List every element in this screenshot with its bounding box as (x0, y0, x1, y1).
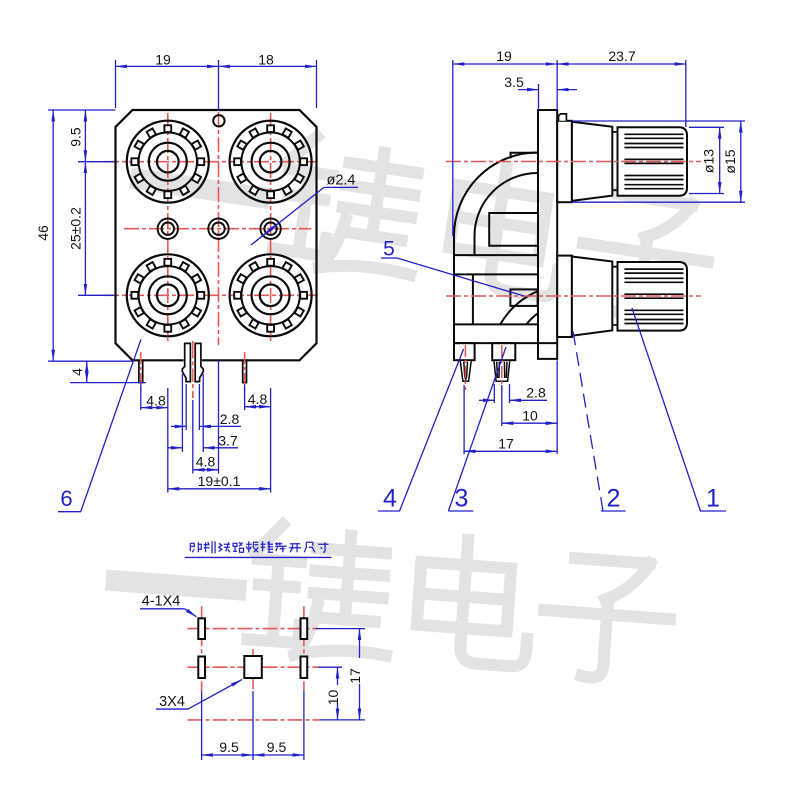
svg-text:19: 19 (496, 48, 512, 64)
dimension texts front view (35, 51, 274, 489)
watermark top: yi jian dian zi (132, 112, 718, 325)
rotor knob top-left (127, 121, 209, 203)
lower pot boss tab (510, 289, 537, 306)
dim phi13 (719, 127, 721, 193)
svg-text:4.8: 4.8 (248, 391, 268, 407)
svg-text:2.8: 2.8 (220, 411, 240, 427)
svg-text:5: 5 (383, 238, 395, 261)
dim 9.5 right (253, 754, 304, 756)
leader 5 (397, 258, 524, 296)
svg-text:18: 18 (258, 51, 274, 67)
dim 10 pcb (337, 667, 339, 685)
dim 3.7 (outside arrows) (167, 447, 182, 449)
housing outer arc upper pot (454, 153, 538, 344)
dim 9.5 left (202, 754, 253, 756)
PCB square hole 3x4 (244, 656, 261, 678)
watermark bottom: yi jian dian zi (112, 513, 675, 683)
lower pot inner arc (526, 313, 537, 324)
svg-text:4.8: 4.8 (146, 392, 166, 408)
svg-text:6: 6 (60, 486, 72, 511)
knob lower (side view) (557, 256, 687, 337)
dim 3.5 (outside arrows) (518, 89, 539, 91)
housing inner arc upper pot (475, 173, 538, 255)
svg-text:4-1X4: 4-1X4 (142, 594, 181, 610)
svg-text:10: 10 (325, 690, 341, 706)
svg-text:10: 10 (522, 408, 538, 424)
svg-text:17: 17 (498, 436, 514, 452)
bracket foot middle (492, 343, 515, 360)
svg-text:3X4: 3X4 (159, 694, 185, 710)
leader 3 (448, 347, 506, 511)
terminal window upper pot (489, 213, 538, 246)
dim 18 (top) (219, 65, 317, 67)
svg-text:17: 17 (347, 668, 363, 684)
svg-text:9.5: 9.5 (67, 127, 83, 147)
svg-text:ø15: ø15 (722, 149, 738, 173)
dim 4.8 bottom (193, 469, 219, 471)
svg-text:46: 46 (35, 225, 51, 241)
vertical rib lower pot (472, 274, 474, 324)
svg-text:ø13: ø13 (701, 149, 717, 173)
svg-text:3.7: 3.7 (218, 433, 238, 449)
svg-text:4: 4 (69, 368, 85, 376)
dim 4.8 left (141, 407, 168, 409)
side view fork terminal pin 2 (494, 360, 510, 381)
dimension lines side view (453, 64, 741, 451)
rivet hole right (phi 2.4) (260, 219, 280, 239)
svg-text:ø2.4: ø2.4 (326, 173, 355, 189)
svg-text:9.5: 9.5 (219, 739, 239, 755)
dim 23.7 (557, 63, 686, 65)
rotor knob bottom-right (230, 254, 312, 336)
svg-text:19: 19 (155, 51, 171, 67)
leader 2 (dashed) (573, 331, 603, 511)
PCB dimension ext lines (202, 629, 365, 760)
svg-text:19±0.1: 19±0.1 (198, 473, 241, 489)
rivet hole middle (phi 2.4) (208, 219, 228, 239)
mounting plate (538, 110, 557, 359)
svg-text:3: 3 (455, 485, 469, 513)
dim 4 (pin length) (86, 361, 88, 382)
dim 46 (52, 110, 54, 361)
knob upper (side view) (557, 121, 687, 202)
leader 1 (632, 308, 701, 511)
centerlines front view (red) (104, 112, 318, 398)
svg-text:9.5: 9.5 (267, 739, 287, 755)
underlines (58, 511, 81, 513)
svg-text:23.7: 23.7 (608, 48, 635, 64)
leader 4 (400, 349, 464, 511)
callout numbers (60, 238, 720, 513)
dim 25+-0.2 (84, 162, 86, 296)
side view body housing (454, 110, 557, 360)
mounting hole top center (213, 115, 224, 126)
rivet hole left (phi 2.4) (158, 219, 178, 239)
PCB title (CJK drawn) (190, 541, 328, 553)
side view fork terminal pin 1 (460, 360, 510, 381)
phi2.4 label + leader (251, 187, 358, 245)
dim 10 (502, 422, 557, 424)
bracket foot left (454, 343, 475, 360)
dim 19 (side) (453, 63, 557, 65)
svg-text:2: 2 (607, 485, 621, 513)
terminal pin right (front view) (243, 360, 247, 382)
dim 19+-0.1 (168, 488, 271, 490)
dim 17 pcb (359, 629, 361, 658)
dim phi15 (740, 121, 742, 202)
upper bushing anti-rotation tab (side view) (559, 114, 567, 121)
anti-rotation snap tab (front view, 3.7 wide) (184, 343, 202, 381)
svg-text:1: 1 (706, 485, 720, 513)
rotor knob top-right (230, 121, 312, 203)
dim 4.8 right (245, 406, 271, 408)
dim 2.8 (outside arrows) (171, 425, 186, 427)
dimension extension lines, front view (48, 60, 317, 493)
rotor knob bottom-left (127, 254, 209, 336)
dim 2.8 (side, outside arrows) (479, 399, 494, 401)
front view: pot body plate (chamfered) (116, 110, 317, 360)
svg-text:2.8: 2.8 (526, 385, 546, 401)
leader 6 (81, 339, 141, 511)
upper pot boss tab (511, 153, 538, 159)
bracket shelf between pots (454, 254, 538, 256)
dim 9.5 (84, 110, 86, 162)
dim 19 (top) (116, 65, 219, 67)
callout leaders (58, 258, 726, 512)
lower pot outer arc (500, 291, 537, 324)
bracket bottom shelf (454, 323, 538, 325)
svg-text:3.5: 3.5 (504, 74, 524, 90)
PCB centerlines (red) (188, 606, 321, 720)
dimension lines front view (53, 66, 316, 488)
dimension extension lines side view (453, 60, 745, 454)
PCB title underline (185, 556, 332, 558)
PCB slot holes 1x4 (198, 618, 307, 678)
PCB dims (202, 629, 360, 755)
svg-text:4.8: 4.8 (196, 454, 216, 470)
terminal pin left (front view) (139, 360, 143, 382)
dim 17 (464, 450, 557, 452)
centerlines side view shafts (red) (446, 162, 701, 297)
svg-text:4: 4 (383, 485, 397, 513)
svg-text:25±0.2: 25±0.2 (67, 207, 83, 250)
